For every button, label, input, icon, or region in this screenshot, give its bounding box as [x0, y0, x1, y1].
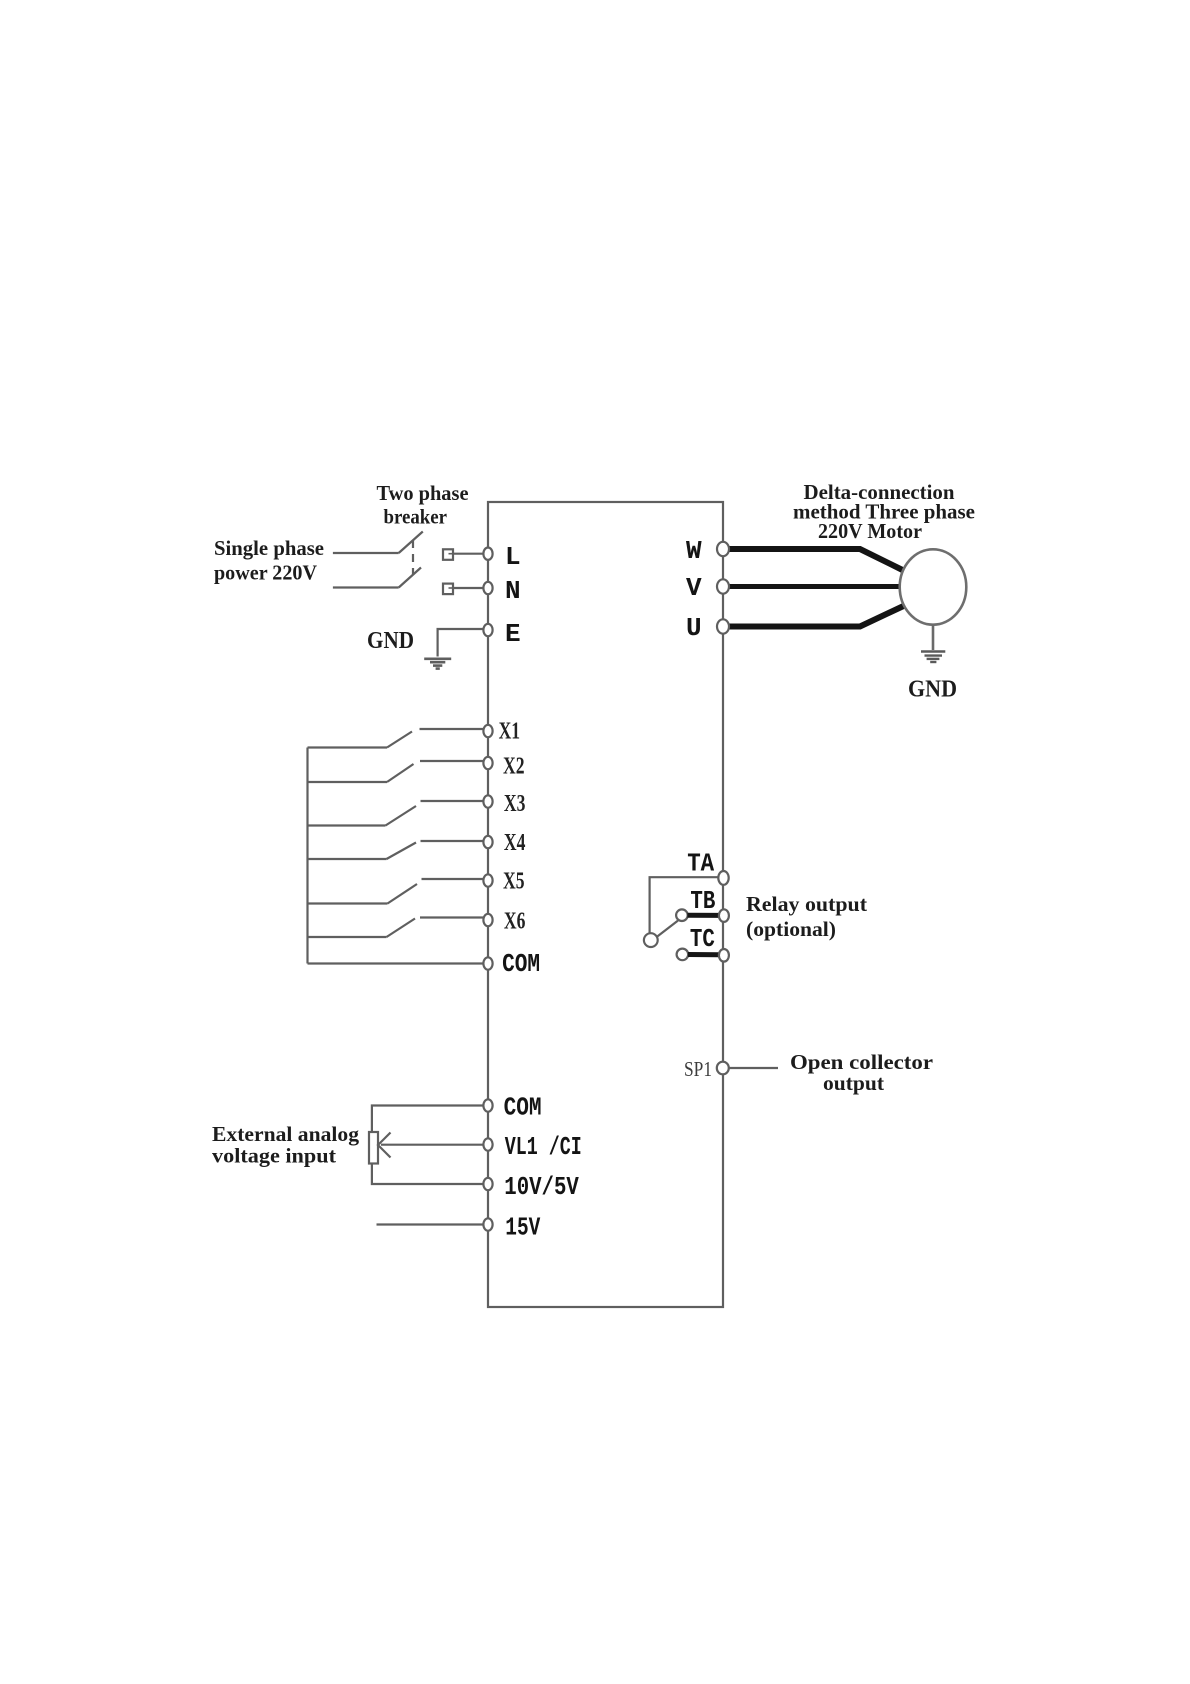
wire: 15V lead	[377, 1223, 484, 1225]
svg-text:power 220V: power 220V	[214, 561, 317, 585]
terminal W	[717, 542, 729, 556]
svg-text:TA: TA	[687, 848, 714, 878]
terminal COM (digital)	[483, 957, 492, 969]
svg-text:L: L	[505, 542, 521, 572]
relay pole contact	[644, 933, 658, 947]
svg-text:GND: GND	[367, 628, 414, 654]
wire: COM lead	[308, 962, 484, 964]
switch S3 blade	[386, 806, 417, 826]
terminal V	[717, 579, 729, 593]
relay TB contact	[676, 909, 688, 921]
wire: U to motor (thick)	[728, 606, 904, 627]
wire: X1 lead	[420, 728, 484, 730]
wire: X5 lead	[422, 878, 484, 880]
svg-text:U: U	[686, 613, 702, 643]
terminal 10V/5V	[483, 1178, 492, 1190]
terminal SP1	[717, 1062, 729, 1075]
svg-text:TC: TC	[690, 924, 715, 954]
wire: X6 lead	[420, 916, 484, 918]
wire: single phase feed L	[333, 552, 399, 554]
svg-text:breaker: breaker	[384, 505, 448, 529]
svg-text:X6: X6	[504, 909, 526, 935]
wire: X3 lead	[421, 800, 484, 802]
relay blade	[656, 921, 678, 938]
terminal TC	[719, 949, 729, 962]
wire: X2 lead	[420, 760, 484, 762]
TB contact bar (thick)	[687, 913, 719, 918]
TC contact bar (thick)	[688, 952, 719, 957]
breaker output connector square L	[443, 549, 453, 560]
svg-text:15V: 15V	[505, 1213, 540, 1243]
switch S2 blade	[387, 764, 414, 782]
terminal VL1/CI	[483, 1138, 492, 1150]
svg-text:X4: X4	[504, 830, 526, 856]
terminal X3	[483, 795, 492, 807]
terminal N	[483, 582, 492, 594]
switch S6 lower contact wire	[308, 936, 387, 938]
svg-text:N: N	[505, 576, 521, 606]
svg-text:X1: X1	[499, 718, 520, 744]
terminal E	[483, 624, 492, 636]
svg-text:GND: GND	[908, 677, 957, 703]
breaker output connector square N	[443, 584, 453, 595]
wire: pot bottom to 10V/5V	[372, 1163, 484, 1185]
inverter box U1	[488, 502, 723, 1307]
switch S4 blade	[387, 843, 417, 860]
motor M1	[900, 549, 967, 624]
svg-text:output: output	[823, 1071, 884, 1095]
relay TC contact	[677, 949, 689, 961]
ground symbol (left)	[424, 659, 451, 669]
wire: W to motor (thick)	[728, 549, 905, 571]
terminal X6	[483, 914, 492, 926]
svg-text:V: V	[686, 573, 702, 603]
svg-text:COM: COM	[502, 949, 540, 979]
breaker gang link (dashed)	[412, 540, 414, 574]
wire: X4 lead	[421, 840, 484, 842]
breaker pole 2 blade	[399, 568, 421, 588]
terminal U	[717, 619, 729, 633]
terminal X5	[483, 874, 492, 886]
terminal X2	[483, 757, 492, 769]
terminal COM (analog)	[483, 1099, 492, 1111]
switch S5 blade	[388, 884, 418, 904]
switch S1 lower contact wire	[308, 746, 388, 748]
wire: motor to ground	[932, 625, 935, 650]
svg-text:External analog: External analog	[212, 1122, 360, 1146]
svg-text:W: W	[686, 536, 702, 566]
svg-text:X2: X2	[503, 754, 525, 780]
terminal TB	[719, 909, 729, 922]
terminal X4	[483, 836, 492, 848]
wire: E terminal to ground	[438, 629, 484, 657]
wire: V to motor (thick)	[728, 584, 901, 589]
svg-text:10V/5V: 10V/5V	[504, 1172, 579, 1202]
svg-text:TB: TB	[690, 886, 715, 916]
svg-text:Relay output: Relay output	[746, 892, 867, 916]
svg-text:X5: X5	[503, 869, 525, 895]
wire: COM (analog) lead	[372, 1106, 484, 1133]
svg-text:X3: X3	[504, 791, 526, 817]
switch S1 blade	[387, 732, 412, 748]
terminal 15V	[483, 1218, 492, 1230]
svg-text:VL1 /CI: VL1 /CI	[505, 1132, 582, 1162]
switch S6 blade	[387, 919, 416, 938]
ground symbol (motor)	[921, 652, 945, 663]
wiper arrow	[378, 1133, 391, 1158]
svg-text:SP1: SP1	[684, 1057, 712, 1081]
svg-text:E: E	[505, 619, 521, 649]
terminal X1	[483, 725, 492, 737]
wire: SP1 lead	[729, 1067, 778, 1069]
svg-text:Two phase: Two phase	[377, 481, 469, 505]
switch S3 lower contact wire	[308, 824, 386, 826]
wire: square to N terminal	[453, 587, 484, 589]
svg-text:220V Motor: 220V Motor	[818, 519, 922, 543]
wire: square to L terminal	[453, 553, 484, 555]
svg-text:COM: COM	[504, 1093, 542, 1123]
potentiometer RP1 body	[369, 1132, 378, 1164]
wire: VL1 wiper lead	[381, 1144, 484, 1146]
wire: TA lead	[650, 877, 719, 933]
svg-text:(optional): (optional)	[746, 917, 836, 941]
switch S5 lower contact wire	[308, 902, 388, 904]
svg-text:Single phase: Single phase	[214, 536, 324, 560]
terminal L	[483, 548, 492, 560]
wire: single phase feed N	[333, 586, 399, 588]
wire: left bus vertical	[306, 748, 308, 964]
switch S2 lower contact wire	[308, 781, 388, 783]
svg-text:voltage input: voltage input	[212, 1144, 336, 1168]
terminal TA	[718, 871, 728, 885]
breaker pole 1 blade	[399, 532, 423, 554]
switch S4 lower contact wire	[308, 858, 387, 860]
